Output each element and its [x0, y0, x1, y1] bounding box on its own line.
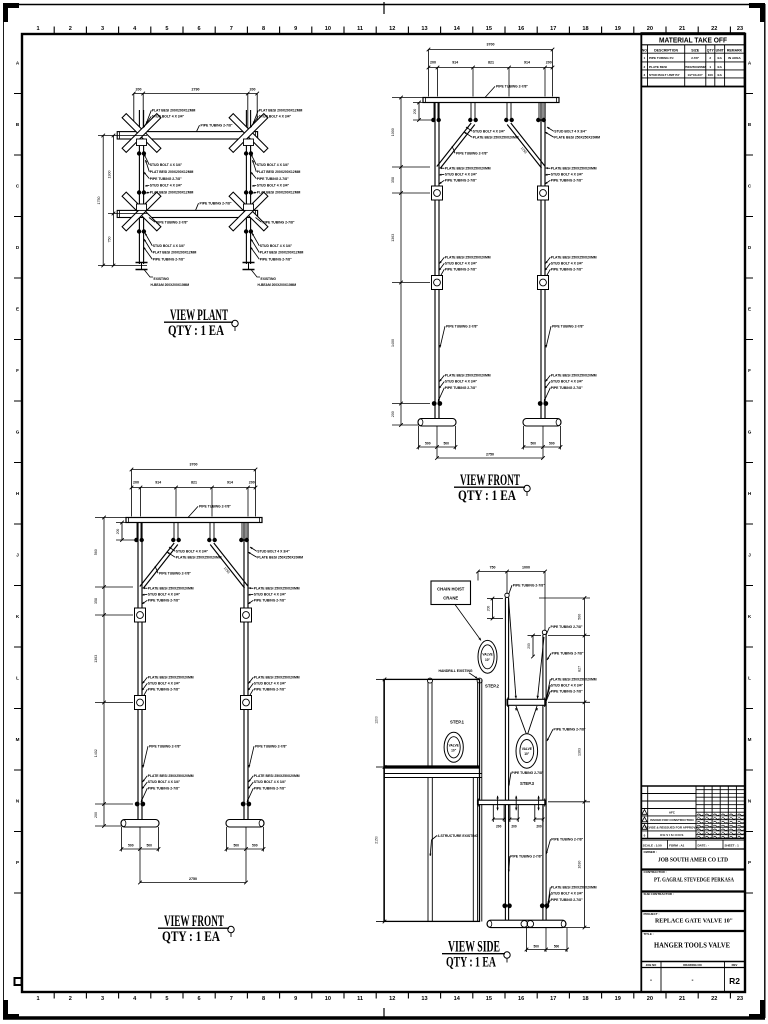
- svg-text:REPLACE GATE VALVE 10": REPLACE GATE VALVE 10": [655, 918, 733, 925]
- svg-text:9: 9: [294, 26, 297, 32]
- svg-text:P: P: [748, 860, 751, 865]
- svg-text:914: 914: [155, 481, 161, 485]
- side inner columns below deck: [427, 778, 429, 922]
- svg-text:P: P: [16, 860, 19, 865]
- MTO header: [641, 44, 744, 46]
- svg-text:3: 3: [101, 996, 104, 1002]
- svg-text:4-STRUCTURE EXISTING: 4-STRUCTURE EXISTING: [438, 834, 479, 838]
- svg-text:PLATE BESI 250X250X20MM: PLATE BESI 250X250X20MM: [551, 886, 597, 890]
- svg-text:PIPE TUBING 2-7/8": PIPE TUBING 2-7/8": [554, 728, 586, 732]
- svg-text:PIPE TUBING 2-7/8": PIPE TUBING 2-7/8": [445, 386, 477, 390]
- svg-text:PLATE BESI 250X250X20MM: PLATE BESI 250X250X20MM: [551, 167, 597, 171]
- svg-text:STUD BOLT 4 X 3/4": STUD BOLT 4 X 3/4": [257, 163, 290, 167]
- frame foot pad right: [226, 820, 264, 828]
- svg-text:PLAT BESI 200X200X12MM: PLAT BESI 200X200X12MM: [257, 191, 301, 195]
- row ticks right margin: [745, 93, 753, 95]
- svg-text:E: E: [16, 307, 19, 312]
- svg-text:8: 8: [262, 26, 265, 32]
- svg-text:22: 22: [711, 26, 717, 32]
- svg-text:PLATE BESI 250X250X20MM: PLATE BESI 250X250X20MM: [551, 677, 597, 681]
- svg-text:PIPE TUBING 2-7/8": PIPE TUBING 2-7/8": [551, 386, 583, 390]
- svg-text:PIPE TUBING 2-7/8": PIPE TUBING 2-7/8": [552, 325, 584, 329]
- frame plate1 left: [135, 608, 146, 622]
- svg-text:500: 500: [554, 944, 560, 948]
- svg-text:13: 13: [421, 996, 427, 1002]
- svg-text:EXISTING: EXISTING: [154, 277, 170, 281]
- frame top dimension chain: [429, 67, 553, 69]
- svg-text:PIPE TUBING 2-7/8": PIPE TUBING 2-7/8": [513, 584, 545, 588]
- svg-text:500: 500: [425, 442, 431, 446]
- svg-text:2750: 2750: [189, 877, 197, 881]
- svg-text:2: 2: [69, 26, 72, 32]
- frame pad dims: [418, 426, 420, 450]
- svg-text:SUB CONTRACTOR :: SUB CONTRACTOR :: [644, 892, 674, 896]
- svg-text:EA: EA: [718, 56, 723, 60]
- svg-text:VALVE: VALVE: [449, 743, 459, 747]
- svg-text:STUD BOLT 4 X 3/4": STUD BOLT 4 X 3/4": [150, 163, 183, 167]
- svg-text:PLATE BESI 250X250X20MM: PLATE BESI 250X250X20MM: [257, 556, 303, 560]
- svg-text:200: 200: [511, 825, 517, 829]
- svg-text:12: 12: [389, 996, 395, 1002]
- svg-text:20: 20: [647, 996, 653, 1002]
- frame bottom dim: [437, 457, 543, 459]
- svg-text:PIPE TUBING 2-7/8": PIPE TUBING 2-7/8": [496, 85, 528, 89]
- svg-text:PIPE TUBING 2-7/8": PIPE TUBING 2-7/8": [551, 898, 583, 902]
- frame columns: [137, 523, 139, 820]
- svg-text:PIPE TUBING 2-7/8": PIPE TUBING 2-7/8": [456, 152, 488, 156]
- plant leader existing beam left: [144, 270, 153, 278]
- frame hanger stubs: [433, 103, 435, 122]
- svg-text:CHAIN HOIST: CHAIN HOIST: [437, 587, 465, 592]
- svg-text:200: 200: [94, 812, 98, 818]
- svg-text:21: 21: [679, 26, 685, 32]
- svg-text:PIPE TUBING 2-7/8": PIPE TUBING 2-7/8": [551, 625, 583, 629]
- frame left dim chain: [103, 518, 105, 827]
- plant X braces: [122, 114, 161, 153]
- svg-text:PLAT BESI 200X200X12MM: PLAT BESI 200X200X12MM: [150, 170, 194, 174]
- side pad dims: [526, 928, 528, 952]
- svg-text:500: 500: [252, 844, 258, 848]
- svg-text:1630: 1630: [578, 861, 582, 869]
- frame top beam: [423, 98, 559, 103]
- svg-text:1363: 1363: [94, 655, 98, 663]
- frame brace right: [507, 125, 541, 169]
- side cross beam 2: [478, 800, 546, 804]
- svg-text:F: F: [16, 368, 19, 373]
- side beam2 chain arrows: [497, 796, 499, 811]
- side right dim chain: [584, 598, 586, 928]
- svg-text:QTY : 1 EA: QTY : 1 EA: [458, 488, 516, 504]
- svg-text:CONTRACTOR :: CONTRACTOR :: [644, 870, 667, 874]
- plant clamps at columns: [137, 139, 147, 146]
- svg-text:VALVE: VALVE: [522, 747, 532, 751]
- svg-text:16: 16: [518, 996, 524, 1002]
- svg-text:200: 200: [430, 61, 436, 65]
- svg-text:PIPE TUBING 2-7/8": PIPE TUBING 2-7/8": [156, 221, 188, 225]
- svg-text:2790: 2790: [192, 88, 200, 92]
- svg-text:PIPE TUBING 2-7/8": PIPE TUBING 2-7/8": [551, 689, 583, 693]
- svg-text:2750: 2750: [486, 453, 494, 457]
- svg-text:821: 821: [488, 61, 494, 65]
- svg-text:PIPE TUBING 2-7/8": PIPE TUBING 2-7/8": [254, 599, 286, 603]
- svg-text:15: 15: [486, 26, 492, 32]
- svg-text:1200: 1200: [375, 716, 379, 724]
- svg-text:VIEW FRONT: VIEW FRONT: [460, 472, 520, 489]
- svg-text:1000: 1000: [522, 565, 530, 569]
- frame plate2 left: [135, 696, 146, 710]
- svg-text:500: 500: [233, 844, 239, 848]
- corner mark top-left: [3, 3, 19, 8]
- svg-text:PIPE TUBING 2-7/8": PIPE TUBING 2-7/8": [200, 202, 232, 206]
- svg-text:500: 500: [443, 442, 449, 446]
- svg-text:PLATE BESI 250X250X20MM: PLATE BESI 250X250X20MM: [176, 556, 222, 560]
- frame 200 dim at beam: [121, 523, 123, 541]
- svg-text:21: 21: [679, 996, 685, 1002]
- frame 200 dim at beam: [418, 103, 420, 121]
- corner mark bottom-left: [3, 1014, 19, 1019]
- frame top beam: [126, 518, 262, 523]
- svg-text:PLAT BESI 200X200X12MM: PLAT BESI 200X200X12MM: [153, 251, 197, 255]
- frame plate1 right: [538, 186, 549, 200]
- svg-text:OWNER :: OWNER :: [644, 850, 657, 854]
- svg-text:750: 750: [108, 237, 112, 243]
- svg-text:750: 750: [490, 565, 496, 569]
- svg-text:6: 6: [198, 996, 201, 1002]
- dwg number strip: [660, 962, 662, 993]
- svg-text:827: 827: [578, 666, 582, 672]
- svg-text:L: L: [16, 676, 19, 681]
- svg-text:STUD BOLT 4 X 3/4": STUD BOLT 4 X 3/4": [254, 682, 287, 686]
- frame base bolt dots: [432, 401, 437, 406]
- plant columns: [138, 110, 140, 264]
- svg-text:STEP.1: STEP.1: [450, 720, 465, 725]
- svg-text:STUD BOLT 4 X 3/4": STUD BOLT 4 X 3/4": [445, 173, 478, 177]
- svg-text:HANDRILL EXISTING: HANDRILL EXISTING: [439, 669, 473, 673]
- svg-text:STUD BOLT 4 X 3/4": STUD BOLT 4 X 3/4": [445, 262, 478, 266]
- side valve circle step1: [444, 732, 463, 762]
- svg-text:PIPE TUBING 2-7/8": PIPE TUBING 2-7/8": [201, 124, 233, 128]
- svg-text:QTY : 1 EA: QTY : 1 EA: [446, 955, 496, 971]
- frame foot pad left: [121, 820, 159, 828]
- svg-text:6: 6: [198, 26, 201, 32]
- svg-text:M: M: [16, 737, 20, 742]
- svg-text:2: 2: [644, 65, 646, 69]
- frame stub bolt dots: [431, 118, 435, 122]
- right column divider: [640, 34, 642, 992]
- svg-text:STEP.3: STEP.3: [520, 781, 535, 786]
- svg-text:NO: NO: [642, 48, 648, 52]
- svg-text:REV: REV: [732, 963, 738, 967]
- svg-text:9: 9: [294, 996, 297, 1002]
- svg-text:STUD BOLT 4 X 3/4": STUD BOLT 4 X 3/4": [148, 682, 181, 686]
- svg-text:SHEET : 1: SHEET : 1: [725, 843, 740, 847]
- svg-text:PIPE TUBING 2-7/8": PIPE TUBING 2-7/8": [254, 786, 286, 790]
- svg-text:2: 2: [69, 996, 72, 1002]
- frame dim extension lines: [131, 470, 133, 517]
- svg-text:19: 19: [615, 26, 621, 32]
- chain hoist crane box: [431, 581, 471, 605]
- frame dim extension lines: [428, 50, 430, 97]
- svg-text:JOB NO: JOB NO: [646, 963, 658, 967]
- svg-text:EA: EA: [718, 65, 723, 69]
- svg-text:5: 5: [165, 26, 168, 32]
- side valve circle step3: [516, 734, 538, 768]
- svg-text:PIPE TUBING 2-7/8": PIPE TUBING 2-7/8": [512, 771, 544, 775]
- svg-text:L: L: [748, 676, 751, 681]
- svg-text:200: 200: [536, 825, 542, 829]
- svg-text:PLAT BESI 200X200X12MM: PLAT BESI 200X200X12MM: [260, 251, 304, 255]
- svg-text:R E V I S I O N S: R E V I S I O N S: [660, 833, 683, 837]
- svg-text:200: 200: [250, 88, 256, 92]
- svg-text:500: 500: [146, 844, 152, 848]
- svg-text:STUD BOLT 4 X 3/4": STUD BOLT 4 X 3/4": [554, 130, 587, 134]
- svg-text:PIPE TUBING 2-7/8": PIPE TUBING 2-7/8": [153, 257, 185, 261]
- svg-text:STUD BOLT 4 X 3/4": STUD BOLT 4 X 3/4": [176, 550, 209, 554]
- frame plate1 left: [432, 186, 443, 200]
- svg-text:PIPE TUBING 2-7/8": PIPE TUBING 2-7/8": [148, 599, 180, 603]
- svg-text:HANGER TOOLS VALVE: HANGER TOOLS VALVE: [654, 942, 730, 950]
- svg-text:PIPE TUBING 2-7/8": PIPE TUBING 2-7/8": [148, 688, 180, 692]
- svg-text:500: 500: [549, 442, 555, 446]
- side handrail post left: [427, 682, 429, 767]
- svg-text:1402: 1402: [94, 749, 98, 757]
- svg-text:200: 200: [116, 529, 120, 535]
- side left dim chain: [384, 679, 386, 921]
- svg-text:G: G: [748, 430, 752, 435]
- svg-text:12: 12: [389, 26, 395, 32]
- scale strip: [641, 839, 744, 841]
- svg-text:STUD BOLT 4 X 3/4": STUD BOLT 4 X 3/4": [473, 130, 506, 134]
- svg-text:PIPE TUBING 2-7/8": PIPE TUBING 2-7/8": [552, 652, 584, 656]
- svg-text:3: 3: [101, 26, 104, 32]
- svg-text:15: 15: [486, 996, 492, 1002]
- svg-text:200: 200: [546, 61, 552, 65]
- frame bottom dim: [140, 882, 246, 884]
- svg-text:SIZE: SIZE: [691, 48, 699, 52]
- svg-text:R2: R2: [729, 976, 740, 986]
- svg-text:2150: 2150: [375, 836, 379, 844]
- svg-text:500: 500: [534, 944, 540, 948]
- plant beam 2 PIPE TUBING: [117, 210, 257, 217]
- svg-text:PLATE BESI 250X250X20MM: PLATE BESI 250X250X20MM: [554, 136, 600, 140]
- frame plate2 right: [241, 696, 252, 710]
- svg-text:IN AREA: IN AREA: [728, 56, 741, 60]
- side existing structure rect: [384, 679, 480, 921]
- frame brace right: [210, 545, 244, 589]
- svg-text:250X250X20MM: 250X250X20MM: [684, 65, 706, 69]
- svg-text:STUD BOLT 4 X 3/4": STUD BOLT 4 X 3/4": [254, 593, 287, 597]
- svg-text:J: J: [16, 553, 19, 558]
- svg-text:PIPE TUBING 2-7/8": PIPE TUBING 2-7/8": [260, 257, 292, 261]
- svg-text:STUD BOLT 4 X 3/4": STUD BOLT 4 X 3/4": [551, 262, 584, 266]
- frame top dimension overall: [429, 49, 553, 51]
- svg-text:500: 500: [128, 844, 134, 848]
- corner mark top-right: [749, 3, 765, 8]
- svg-text:10": 10": [485, 658, 491, 662]
- svg-text:2-7/8": 2-7/8": [691, 56, 700, 60]
- svg-text:PIPE TUBING 2-7/8": PIPE TUBING 2-7/8": [148, 786, 180, 790]
- plant beam 1 PIPE TUBING: [117, 132, 257, 139]
- svg-text:19: 19: [615, 996, 621, 1002]
- svg-text:10": 10": [451, 748, 457, 752]
- svg-text:3: 3: [644, 73, 646, 77]
- svg-text:1: 1: [37, 26, 40, 32]
- svg-text:PLATE BESI 250X250X20MM: PLATE BESI 250X250X20MM: [445, 167, 491, 171]
- svg-text:PLATE BESI 250X250X20MM: PLATE BESI 250X250X20MM: [254, 587, 300, 591]
- svg-text:STUD BOLT 4 X 3/4": STUD BOLT 4 X 3/4": [551, 892, 584, 896]
- svg-text:-: -: [650, 978, 652, 984]
- corner mark bottom-right: [749, 1014, 765, 1019]
- svg-text:1: 1: [644, 56, 646, 60]
- svg-text:PIPE TUBING 2-7/8": PIPE TUBING 2-7/8": [510, 855, 542, 859]
- svg-text:PLATE BESI 250X250X20MM: PLATE BESI 250X250X20MM: [473, 136, 519, 140]
- svg-text:VIEW FRONT: VIEW FRONT: [164, 913, 224, 930]
- svg-text:PIPE TUBING 2-7/8": PIPE TUBING 2-7/8": [446, 325, 478, 329]
- svg-text:PIPE TUBING 2-7/8": PIPE TUBING 2-7/8": [445, 179, 477, 183]
- svg-text:358: 358: [391, 177, 395, 183]
- MTO grid: [647, 45, 649, 87]
- svg-text:STUD BOLT UNIT BY: STUD BOLT UNIT BY: [649, 73, 681, 77]
- svg-text:22: 22: [711, 996, 717, 1002]
- svg-text:13: 13: [421, 26, 427, 32]
- title block frame: [641, 785, 744, 787]
- registration square bottom-left: [14, 977, 23, 986]
- svg-text:10: 10: [325, 996, 331, 1002]
- svg-text:F: F: [748, 368, 751, 373]
- svg-text:200: 200: [413, 109, 417, 115]
- svg-text:5: 5: [165, 996, 168, 1002]
- svg-text:914: 914: [227, 481, 233, 485]
- frame top dimension chain: [132, 487, 256, 489]
- sheet trim border: [3, 4, 765, 6]
- svg-text:200: 200: [487, 606, 491, 612]
- svg-text:DATE : -: DATE : -: [698, 843, 710, 847]
- side top dims: [478, 571, 545, 573]
- svg-text:PIPE TUBING 2-7/8": PIPE TUBING 2-7/8": [254, 688, 286, 692]
- svg-text:STUD BOLT 4 X 3/4": STUD BOLT 4 X 3/4": [259, 115, 292, 119]
- svg-text:PLATE BESI 250X250X20MM: PLATE BESI 250X250X20MM: [254, 676, 300, 680]
- plant top dimension chain: [134, 93, 257, 95]
- svg-text:JOB SOUTH AMER CO LTD: JOB SOUTH AMER CO LTD: [658, 857, 728, 864]
- ruler ticks top: [53, 27, 55, 34]
- svg-text:PIPE TUBING 2-7/8": PIPE TUBING 2-7/8": [551, 838, 583, 842]
- svg-text:200: 200: [527, 643, 531, 649]
- side chain lines lower to valve3: [516, 706, 526, 734]
- svg-text:M: M: [748, 737, 752, 742]
- svg-text:J: J: [748, 553, 751, 558]
- side base bolt dots: [502, 903, 507, 908]
- svg-text:PIPE TUBING 2-7/8": PIPE TUBING 2-7/8": [199, 505, 231, 509]
- frame plate1 right: [241, 608, 252, 622]
- svg-text:STUD BOLT 4 X 3/4": STUD BOLT 4 X 3/4": [257, 184, 290, 188]
- frame brace left: [437, 123, 471, 167]
- svg-text:16: 16: [518, 26, 524, 32]
- svg-text:PLAT BESI 200X200X12MM: PLAT BESI 200X200X12MM: [150, 191, 194, 195]
- svg-text:PIPE TUBING 2-7/8": PIPE TUBING 2-7/8": [263, 221, 295, 225]
- svg-text:1363: 1363: [578, 748, 582, 756]
- frame foot pad right: [523, 419, 561, 427]
- svg-text:17: 17: [550, 996, 556, 1002]
- frame columns: [434, 103, 436, 419]
- svg-text:SCALE : 1:50: SCALE : 1:50: [643, 843, 662, 847]
- svg-text:VIEW SIDE: VIEW SIDE: [448, 939, 500, 956]
- frame plate2 left: [432, 276, 443, 290]
- svg-text:PLATE BESI 250X250X20MM: PLATE BESI 250X250X20MM: [148, 676, 194, 680]
- svg-text:STUD BOLT 4 X 3/4": STUD BOLT 4 X 3/4": [152, 115, 185, 119]
- frame base bolt dots: [135, 802, 140, 807]
- side 200 dim pipeA: [492, 599, 494, 619]
- svg-text:VIEW PLANT: VIEW PLANT: [170, 307, 228, 324]
- chain hoist leader: [455, 605, 481, 641]
- side 200 dim pipeB: [532, 636, 534, 657]
- svg-text:200: 200: [249, 481, 255, 485]
- svg-text:914: 914: [452, 61, 458, 65]
- svg-text:ISSUED FOR CONSTRUCTION: ISSUED FOR CONSTRUCTION: [650, 818, 693, 822]
- side 200 brackets below beam2: [492, 805, 494, 822]
- svg-text:G: G: [16, 430, 20, 435]
- svg-text:14: 14: [454, 996, 461, 1002]
- svg-text:1400: 1400: [391, 339, 395, 347]
- svg-text:1300: 1300: [108, 171, 112, 179]
- svg-text:FORM : A1: FORM : A1: [669, 843, 685, 847]
- side pipe B: [542, 630, 546, 634]
- revision delta symbols: [642, 810, 647, 815]
- frame plate2 right: [538, 276, 549, 290]
- plant bolt dots: [137, 151, 141, 155]
- svg-text:-: -: [692, 978, 694, 984]
- svg-text:STUD BOLT 4 X 3/4": STUD BOLT 4 X 3/4": [148, 780, 181, 784]
- svg-text:STUD BOLT 4 X 3/4": STUD BOLT 4 X 3/4": [153, 244, 186, 248]
- svg-text:11: 11: [357, 996, 363, 1002]
- frame brace left: [140, 543, 174, 587]
- svg-text:PLATE BESI 250X250X20MM: PLATE BESI 250X250X20MM: [551, 374, 597, 378]
- svg-text:STUD BOLT 4 X 3/4": STUD BOLT 4 X 3/4": [150, 184, 183, 188]
- svg-text:23: 23: [737, 26, 743, 32]
- side handrail post right: [477, 682, 479, 767]
- side cross beam 1: [507, 699, 546, 705]
- svg-text:STEP.2: STEP.2: [485, 684, 500, 689]
- svg-text:18: 18: [582, 26, 588, 32]
- svg-text:23: 23: [737, 996, 743, 1002]
- svg-text:QTY: QTY: [707, 48, 715, 52]
- svg-text:1750: 1750: [97, 197, 101, 205]
- svg-text:STUD BOLT 4 X 3/4": STUD BOLT 4 X 3/4": [551, 173, 584, 177]
- svg-text:1/2"X3-3/4": 1/2"X3-3/4": [688, 73, 704, 77]
- svg-text:TITLE :: TITLE :: [644, 932, 654, 936]
- center tick bottom: [383, 1008, 385, 1019]
- material take off table: [641, 33, 744, 87]
- svg-text:11: 11: [357, 26, 363, 32]
- svg-text:3700: 3700: [487, 43, 495, 47]
- svg-text:PIPE TUBING 2-7/8": PIPE TUBING 2-7/8": [551, 268, 583, 272]
- svg-text:7: 7: [230, 996, 233, 1002]
- svg-text:560: 560: [94, 549, 98, 555]
- plant column end marks: [136, 262, 148, 264]
- frame hanger stubs: [136, 523, 138, 542]
- svg-text:E: E: [748, 307, 751, 312]
- svg-text:PIPE TUBING 2-7/8": PIPE TUBING 2-7/8": [445, 268, 477, 272]
- svg-text:AFC: AFC: [669, 811, 676, 815]
- revision table: [647, 786, 649, 838]
- frame left dim chain: [400, 98, 402, 426]
- frame foot pad left: [418, 419, 456, 427]
- svg-text:PT. GAGRAL STEVEDGE PERKASA: PT. GAGRAL STEVEDGE PERKASA: [654, 877, 734, 884]
- svg-text:REVISE & REISSUED FOR APPROVAL: REVISE & REISSUED FOR APPROVAL: [645, 826, 700, 830]
- row ticks left margin: [14, 93, 22, 95]
- side chain lines upper: [509, 598, 517, 699]
- svg-text:PLATE BESI: PLATE BESI: [649, 65, 667, 69]
- svg-text:QTY : 1 EA: QTY : 1 EA: [168, 323, 224, 339]
